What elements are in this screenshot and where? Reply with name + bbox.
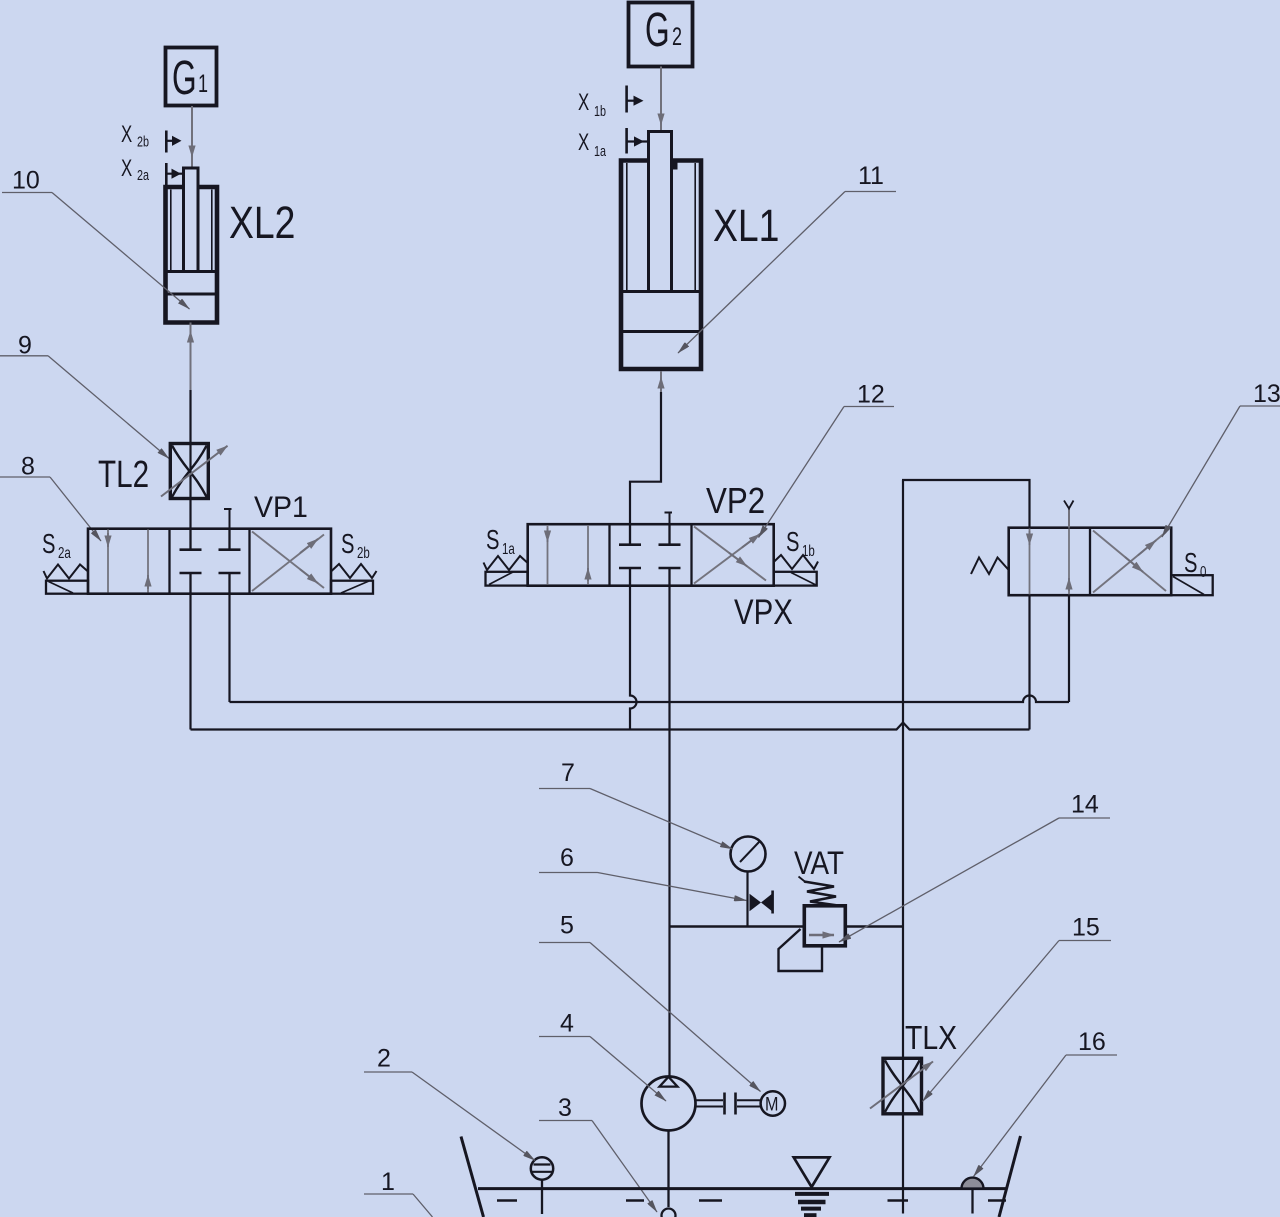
wire XL1 to VP2 with jog	[630, 371, 661, 524]
VP2 centre box blocked ports	[619, 524, 681, 586]
svg-text:S: S	[341, 529, 354, 560]
label S1a	[486, 525, 515, 558]
wire XL2 to TL2	[190, 323, 192, 445]
leader 5	[539, 912, 761, 1092]
wire valve13 bottom port up from line A	[1068, 595, 1070, 702]
svg-text:1: 1	[381, 1168, 395, 1196]
VP1 right box crossed arrows	[252, 535, 324, 592]
svg-text:TLX: TLX	[905, 1019, 957, 1057]
svg-text:2: 2	[672, 22, 682, 51]
gauge box G2	[629, 2, 693, 66]
throttle valve TLX	[870, 1058, 933, 1114]
svg-text:1a: 1a	[502, 539, 515, 557]
directional valve VP1	[88, 509, 331, 594]
svg-text:VP2: VP2	[706, 481, 765, 522]
label X1b	[578, 89, 606, 119]
svg-text:VP1: VP1	[254, 491, 308, 524]
svg-text:VPX: VPX	[734, 593, 793, 632]
svg-text:G: G	[645, 2, 670, 56]
cylinder XL1	[621, 132, 701, 370]
svg-text:16: 16	[1078, 1028, 1106, 1056]
valve13 pilot port	[1068, 509, 1070, 528]
tank left wall	[461, 1137, 484, 1217]
tank right wall	[999, 1136, 1021, 1217]
throttle valve TL2	[161, 444, 228, 499]
leader 14	[839, 791, 1110, 943]
svg-text:7: 7	[561, 759, 575, 787]
leader 9	[0, 332, 169, 459]
suction strainer item 16	[962, 1178, 984, 1214]
leader 12	[759, 381, 895, 538]
leader 4	[539, 1010, 666, 1102]
pump item 4	[642, 1077, 696, 1131]
svg-text:0: 0	[1200, 562, 1207, 580]
svg-text:13: 13	[1253, 380, 1280, 408]
leader 15	[923, 914, 1112, 1102]
wire loop right side	[1028, 479, 1030, 730]
svg-text:TL2: TL2	[98, 454, 149, 496]
relief valve VAT	[779, 877, 846, 972]
leader 8	[0, 453, 101, 542]
gauge shutoff item 6	[750, 891, 773, 914]
svg-text:11: 11	[858, 162, 884, 190]
leader 7	[539, 759, 733, 849]
svg-text:X: X	[578, 129, 589, 156]
svg-text:G: G	[172, 50, 197, 104]
valve13 right box crossed arrows	[1093, 532, 1166, 593]
solenoid valve13 right	[1171, 575, 1213, 595]
suction pipe	[667, 1131, 669, 1208]
svg-text:1b: 1b	[594, 102, 606, 119]
svg-text:2a: 2a	[137, 166, 150, 183]
suction strainer item 3	[662, 1209, 676, 1217]
pump pressure wire VP2 port B down to pump	[668, 586, 670, 1077]
VP2 left box flow arrows	[547, 525, 549, 585]
port mark X2b	[166, 131, 181, 153]
directional valve 13	[1009, 501, 1171, 596]
VP1 left box flow arrows	[107, 530, 109, 593]
pressure gauge item 7	[731, 837, 766, 927]
svg-text:X: X	[121, 155, 132, 182]
svg-text:8: 8	[21, 453, 35, 481]
wire G1 to XL2 rod	[191, 106, 193, 168]
svg-text:15: 15	[1072, 914, 1100, 942]
leader 2	[364, 1045, 535, 1161]
svg-text:VAT: VAT	[794, 846, 844, 881]
svg-text:3: 3	[558, 1094, 572, 1122]
svg-text:M: M	[765, 1093, 778, 1115]
leader 3	[539, 1094, 657, 1212]
directional valve VP2	[528, 513, 774, 586]
svg-text:1a: 1a	[594, 142, 607, 159]
svg-text:2a: 2a	[58, 543, 71, 561]
wire TLX to tank	[902, 1114, 904, 1214]
svg-text:X: X	[121, 121, 132, 148]
label S2a	[42, 529, 71, 562]
wire G2 to XL1 rod	[660, 67, 662, 132]
fluid level dashes	[497, 1199, 1006, 1202]
leader 10	[2, 167, 190, 310]
vent ground bars	[795, 1194, 829, 1215]
filler breather item 2	[531, 1157, 553, 1214]
wire loop top	[902, 479, 1031, 481]
leader 1	[364, 1168, 433, 1217]
svg-text:X: X	[578, 89, 589, 116]
leader 16	[974, 1028, 1118, 1177]
VP1 pilot port	[229, 509, 231, 529]
wire VP1 port A down	[189, 594, 191, 730]
leader 13	[1162, 380, 1280, 537]
gauge box G1	[166, 48, 217, 106]
wire loop left side	[902, 480, 904, 1059]
leader 11	[678, 162, 896, 353]
label X2b	[121, 121, 149, 150]
svg-text:2b: 2b	[137, 133, 149, 150]
drive shaft and coupling	[696, 1093, 761, 1115]
vent symbol triangle	[794, 1157, 830, 1187]
svg-text:XL2: XL2	[229, 198, 295, 248]
label S0	[1184, 548, 1207, 581]
valve13 left box flow arrows	[1029, 529, 1031, 595]
VP2 right box crossed arrows	[694, 530, 766, 584]
motor M item 5	[761, 1091, 785, 1115]
main relief line pump to loop	[670, 925, 904, 927]
port mark X1a	[627, 128, 648, 154]
VP2 pilot port	[669, 513, 671, 525]
svg-text:XL1: XL1	[713, 201, 779, 251]
svg-text:S: S	[42, 529, 55, 560]
solenoid VP2 left	[486, 572, 528, 586]
svg-text:4: 4	[560, 1010, 574, 1038]
spring VP1 left	[44, 565, 89, 579]
svg-text:2b: 2b	[357, 543, 370, 561]
svg-text:5: 5	[560, 912, 574, 940]
spring VP1 right	[331, 564, 377, 578]
wire VP2 port A down with hop over line A	[630, 586, 637, 730]
label S2b	[341, 529, 370, 562]
label X1a	[578, 129, 607, 159]
line B horizontal with hop over loop left wire	[191, 723, 1030, 730]
cylinder XL2	[166, 168, 218, 323]
wire TL2 to VP1	[189, 499, 191, 530]
label S1b	[786, 527, 815, 560]
solenoid VP1 right	[331, 581, 373, 594]
svg-text:1: 1	[198, 69, 208, 98]
port mark X1b	[627, 86, 644, 113]
tank fluid surface	[478, 1187, 1006, 1190]
svg-text:S: S	[486, 525, 499, 556]
spring valve13 left	[971, 558, 1009, 575]
svg-text:2: 2	[377, 1045, 391, 1073]
solenoid VP1 left	[46, 581, 88, 594]
label X2a	[121, 155, 150, 183]
solenoid VP2 right	[774, 572, 817, 586]
svg-text:12: 12	[857, 381, 885, 409]
VP1 centre box blocked ports	[180, 529, 241, 594]
line A horizontal with hop over loop right wire	[230, 696, 1070, 702]
svg-text:6: 6	[560, 844, 574, 872]
spring VP2 right	[774, 555, 818, 569]
port mark X2a	[166, 163, 183, 187]
svg-text:10: 10	[12, 167, 40, 195]
wire VP1 port B down	[228, 594, 230, 702]
leader 6	[539, 844, 747, 901]
svg-text:S: S	[786, 527, 799, 558]
svg-text:14: 14	[1071, 791, 1099, 819]
spring VP2 left	[484, 556, 528, 570]
